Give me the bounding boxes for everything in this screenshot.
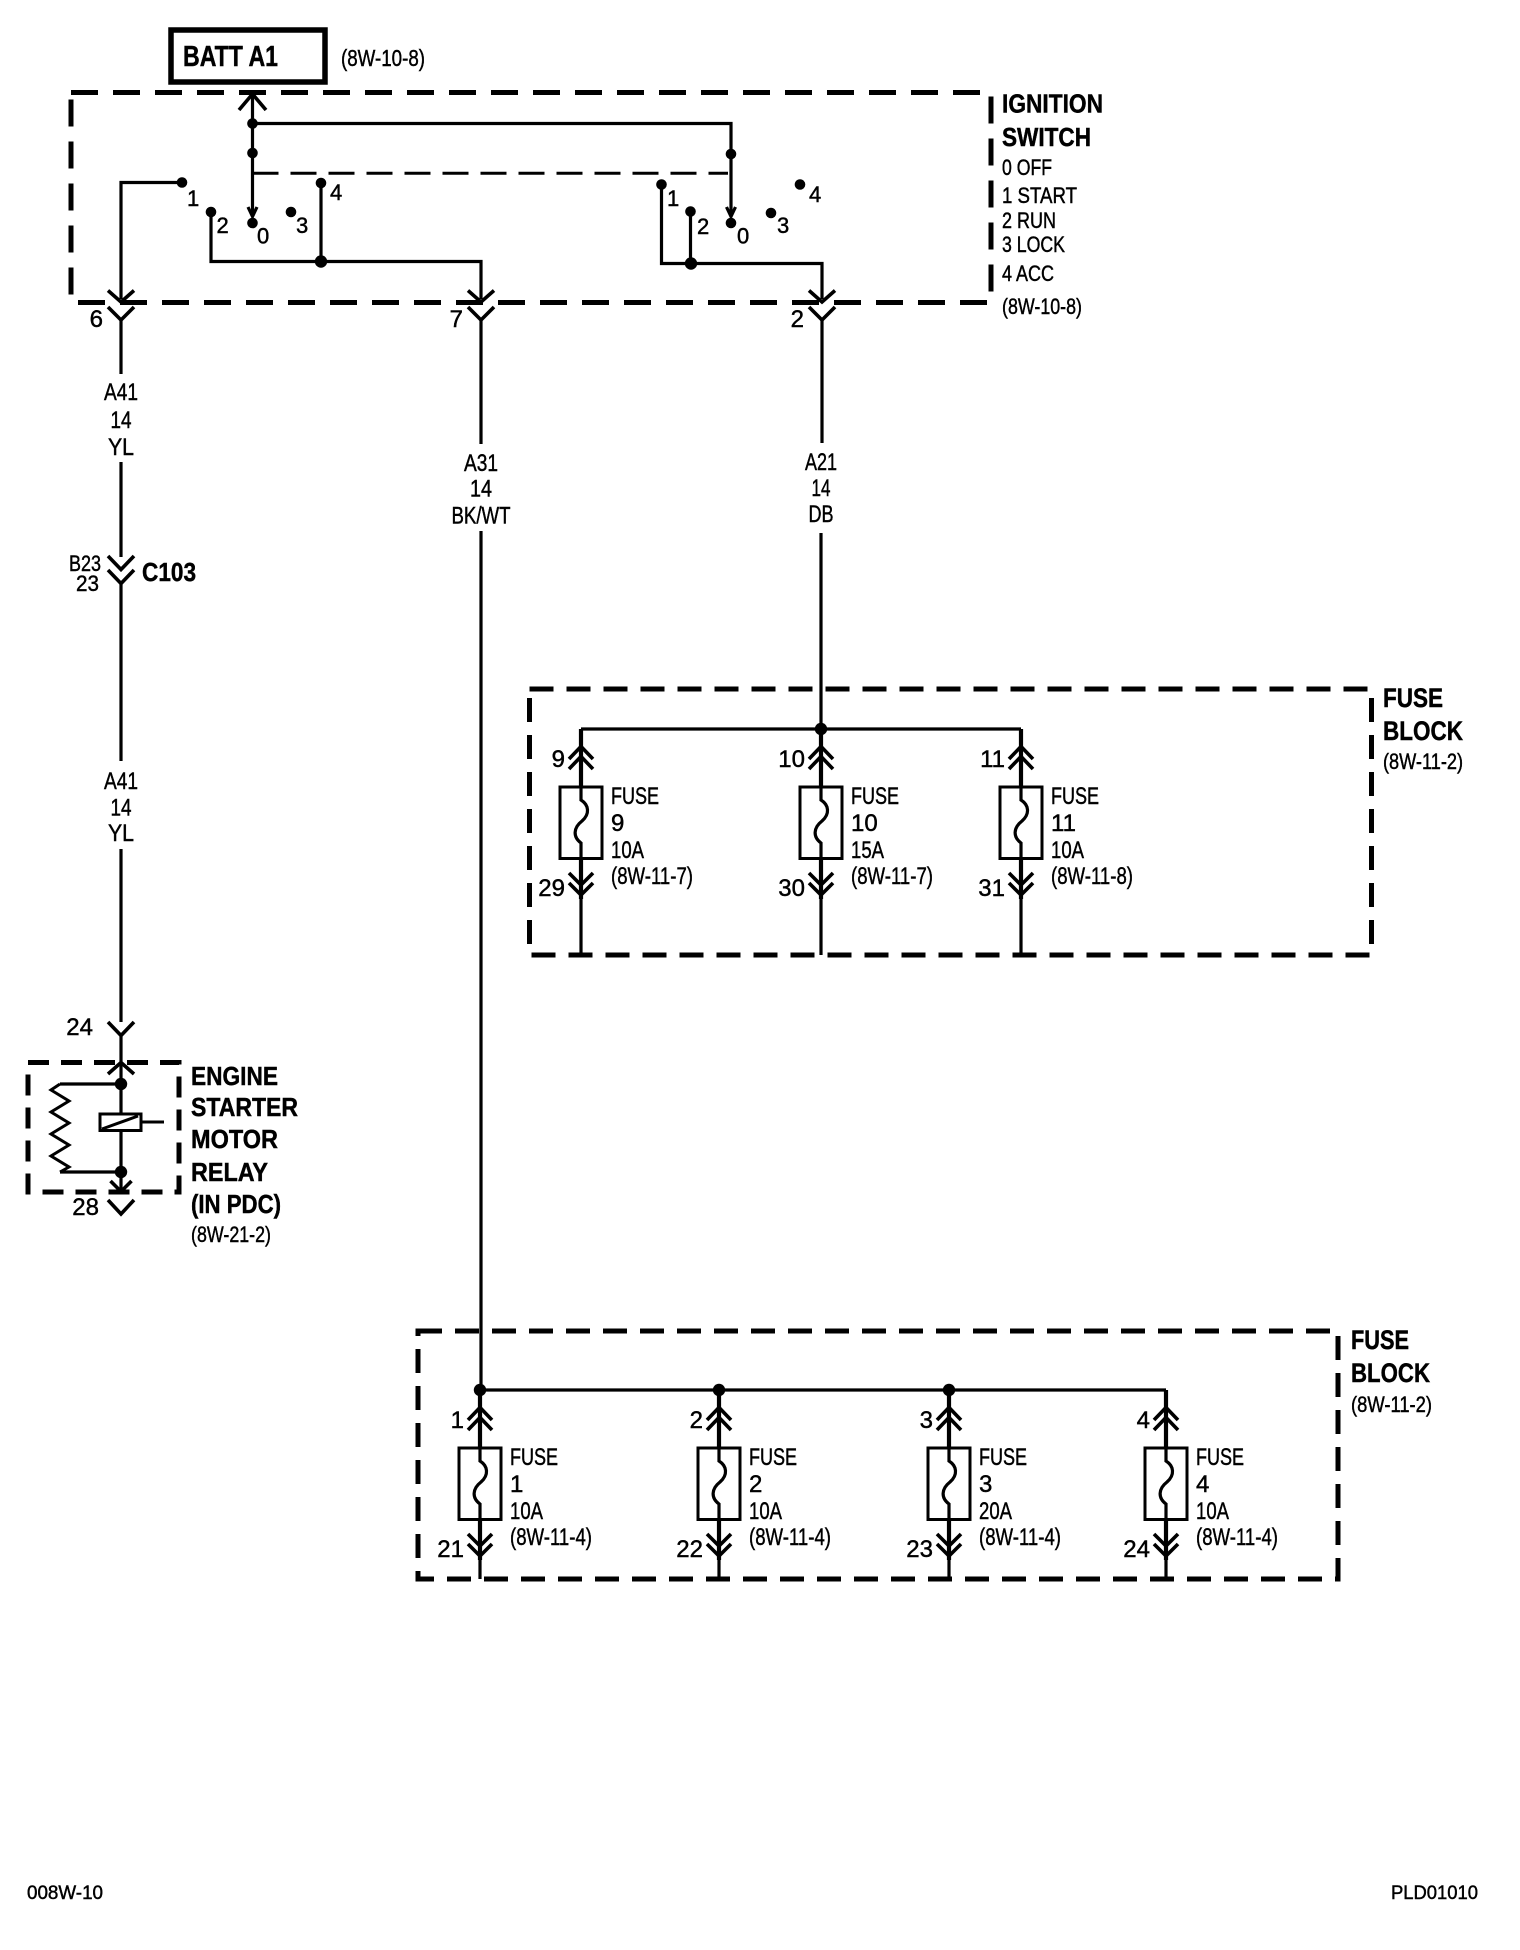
svg-text:FUSE: FUSE <box>1051 783 1099 810</box>
svg-text:10A: 10A <box>1196 1498 1229 1525</box>
svg-text:(8W-11-4): (8W-11-4) <box>1196 1524 1278 1551</box>
svg-text:(8W-11-7): (8W-11-7) <box>851 863 933 890</box>
svg-text:4: 4 <box>809 182 821 207</box>
svg-text:(8W-10-8): (8W-10-8) <box>341 45 425 71</box>
svg-text:22: 22 <box>676 1536 703 1563</box>
svg-text:10: 10 <box>851 810 878 837</box>
svg-text:(IN PDC): (IN PDC) <box>191 1189 281 1219</box>
svg-text:(8W-21-2): (8W-21-2) <box>191 1222 271 1247</box>
svg-text:FUSE: FUSE <box>851 783 899 810</box>
svg-text:RELAY: RELAY <box>191 1157 268 1187</box>
svg-text:IGNITION: IGNITION <box>1002 89 1103 119</box>
svg-text:2: 2 <box>217 213 229 238</box>
svg-text:1: 1 <box>451 1407 464 1434</box>
svg-text:11: 11 <box>1051 810 1076 837</box>
svg-text:FUSE: FUSE <box>611 783 659 810</box>
svg-text:1: 1 <box>187 186 199 211</box>
svg-text:DB: DB <box>809 501 834 528</box>
svg-text:3: 3 <box>920 1407 933 1434</box>
svg-text:4 ACC: 4 ACC <box>1002 261 1054 286</box>
svg-text:7: 7 <box>450 306 463 333</box>
svg-text:1: 1 <box>667 186 679 211</box>
svg-text:FUSE: FUSE <box>1383 683 1443 713</box>
svg-text:PLD01010: PLD01010 <box>1391 1883 1478 1904</box>
svg-text:1: 1 <box>510 1471 523 1498</box>
svg-text:FUSE: FUSE <box>979 1444 1027 1471</box>
svg-text:BLOCK: BLOCK <box>1351 1358 1430 1388</box>
svg-text:BATT A1: BATT A1 <box>183 41 278 73</box>
svg-text:SWITCH: SWITCH <box>1002 122 1091 152</box>
svg-text:STARTER: STARTER <box>191 1092 298 1122</box>
svg-text:(8W-11-4): (8W-11-4) <box>979 1524 1061 1551</box>
svg-text:2: 2 <box>697 214 709 239</box>
svg-text:4: 4 <box>1196 1471 1209 1498</box>
svg-text:0: 0 <box>257 224 269 249</box>
svg-text:2: 2 <box>791 306 804 333</box>
svg-text:9: 9 <box>611 810 624 837</box>
svg-text:(8W-11-8): (8W-11-8) <box>1051 863 1133 890</box>
svg-text:0: 0 <box>737 224 749 249</box>
svg-text:(8W-11-7): (8W-11-7) <box>611 863 693 890</box>
svg-text:24: 24 <box>1123 1536 1150 1563</box>
svg-text:31: 31 <box>978 875 1005 902</box>
svg-text:A21: A21 <box>805 449 837 476</box>
svg-text:YL: YL <box>108 820 134 847</box>
svg-text:(8W-11-4): (8W-11-4) <box>510 1524 592 1551</box>
svg-text:008W-10: 008W-10 <box>27 1883 103 1904</box>
svg-text:A41: A41 <box>104 768 138 795</box>
svg-text:14: 14 <box>470 476 492 503</box>
svg-text:C103: C103 <box>142 557 196 587</box>
svg-text:21: 21 <box>437 1536 464 1563</box>
svg-text:10A: 10A <box>611 837 644 864</box>
svg-text:3: 3 <box>979 1471 992 1498</box>
svg-text:29: 29 <box>538 875 565 902</box>
svg-text:0 OFF: 0 OFF <box>1002 155 1052 180</box>
svg-text:4: 4 <box>330 180 342 205</box>
svg-text:2: 2 <box>690 1407 703 1434</box>
svg-text:10A: 10A <box>510 1498 543 1525</box>
svg-text:YL: YL <box>108 434 134 461</box>
svg-text:1 START: 1 START <box>1002 183 1077 208</box>
svg-text:FUSE: FUSE <box>1196 1444 1244 1471</box>
svg-text:14: 14 <box>111 407 132 434</box>
svg-text:10A: 10A <box>1051 837 1084 864</box>
svg-text:FUSE: FUSE <box>749 1444 797 1471</box>
svg-text:2 RUN: 2 RUN <box>1002 208 1056 233</box>
svg-text:(8W-10-8): (8W-10-8) <box>1002 294 1082 319</box>
svg-text:3 LOCK: 3 LOCK <box>1002 232 1065 257</box>
svg-text:(8W-11-2): (8W-11-2) <box>1351 1392 1432 1417</box>
svg-text:23: 23 <box>906 1536 933 1563</box>
svg-text:30: 30 <box>778 875 805 902</box>
svg-text:FUSE: FUSE <box>1351 1325 1409 1355</box>
svg-text:23: 23 <box>76 571 99 596</box>
svg-text:3: 3 <box>777 213 789 238</box>
svg-text:2: 2 <box>749 1471 762 1498</box>
svg-text:(8W-11-4): (8W-11-4) <box>749 1524 831 1551</box>
svg-text:14: 14 <box>812 475 831 502</box>
svg-text:3: 3 <box>296 213 308 238</box>
svg-text:11: 11 <box>980 746 1005 773</box>
svg-text:A41: A41 <box>104 379 138 406</box>
svg-text:BLOCK: BLOCK <box>1383 716 1463 746</box>
svg-text:6: 6 <box>90 306 103 333</box>
svg-text:10A: 10A <box>749 1498 782 1525</box>
svg-text:24: 24 <box>66 1014 93 1041</box>
svg-text:15A: 15A <box>851 837 884 864</box>
svg-text:20A: 20A <box>979 1498 1012 1525</box>
svg-text:14: 14 <box>111 795 132 822</box>
svg-text:FUSE: FUSE <box>510 1444 558 1471</box>
svg-text:10: 10 <box>778 746 805 773</box>
svg-text:9: 9 <box>552 746 565 773</box>
svg-text:28: 28 <box>72 1194 99 1221</box>
svg-text:ENGINE: ENGINE <box>191 1061 278 1091</box>
svg-text:(8W-11-2): (8W-11-2) <box>1383 749 1463 774</box>
svg-text:BK/WT: BK/WT <box>452 503 511 530</box>
svg-text:4: 4 <box>1137 1407 1150 1434</box>
svg-text:A31: A31 <box>464 450 498 477</box>
svg-text:MOTOR: MOTOR <box>191 1124 278 1154</box>
